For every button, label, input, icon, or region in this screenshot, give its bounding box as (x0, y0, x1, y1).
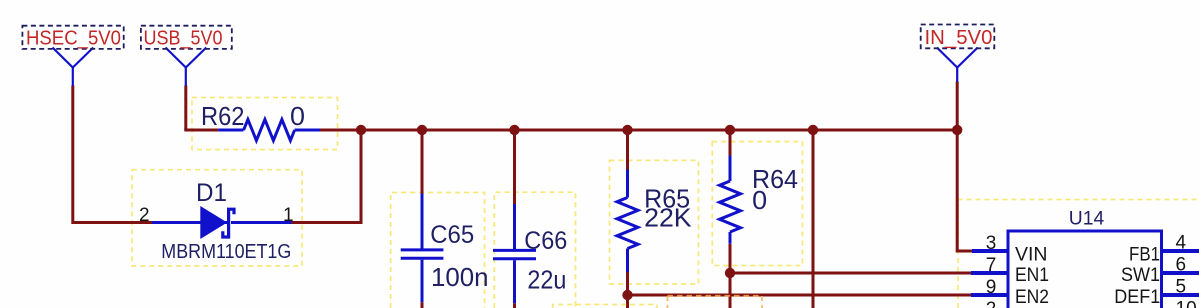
junction dot C65 (417, 125, 427, 135)
svg-text:MBRM110ET1G: MBRM110ET1G (161, 241, 291, 263)
svg-text:5: 5 (1176, 277, 1187, 298)
wire R64 bottom (729, 244, 732, 308)
svg-text:HSEC_5V0: HSEC_5V0 (26, 27, 121, 49)
component box C65 (391, 193, 485, 308)
pin 5 DEF1 stub (1162, 293, 1199, 297)
wire vertical branch (812, 130, 815, 308)
svg-text:C66: C66 (524, 227, 567, 255)
svg-text:USB_5V0: USB_5V0 (144, 27, 223, 49)
svg-text:VIN: VIN (1015, 244, 1048, 265)
capacitor C65 (401, 194, 444, 303)
component box C66 (494, 192, 575, 308)
svg-text:IN_5V0: IN_5V0 (925, 27, 993, 49)
svg-text:R62: R62 (201, 101, 245, 131)
svg-text:22u: 22u (527, 265, 566, 295)
svg-text:SW1: SW1 (1121, 265, 1160, 286)
component box R65 (610, 160, 699, 284)
svg-text:EN2: EN2 (1015, 287, 1049, 308)
component box R62 (192, 98, 338, 150)
resistor R62 (218, 120, 320, 141)
power port USB_5V0 (166, 48, 207, 87)
power port IN_5V0 (937, 48, 978, 83)
svg-text:3: 3 (986, 233, 997, 254)
capacitor C66 (493, 204, 536, 303)
wire R65 top (626, 130, 629, 170)
svg-text:0: 0 (290, 101, 305, 131)
svg-text:D1: D1 (196, 179, 227, 207)
wire main horizontal net (320, 129, 957, 132)
wire EN1 net (730, 272, 971, 275)
wire C66 top (513, 130, 516, 204)
junction dot branch (808, 125, 818, 135)
component box fragment verticals (668, 296, 763, 308)
svg-text:7: 7 (986, 255, 997, 276)
pin 3 VIN stub (972, 249, 1008, 253)
svg-text:1: 1 (283, 205, 294, 226)
pin 7 EN1 stub (971, 271, 1008, 275)
pin 4 FB1 stub (1162, 249, 1199, 253)
component box U14 (958, 200, 1199, 308)
IC U14 body (1008, 231, 1162, 308)
pin 9 EN2 stub (971, 293, 1008, 297)
net label box IN_5V0 (921, 25, 995, 49)
component box fragment bottom-center (553, 305, 657, 308)
wire C66 bottom (513, 303, 516, 308)
wire diode output to main net (292, 130, 362, 223)
component box D1 (132, 170, 302, 266)
component box fragment orange top edge (668, 295, 763, 297)
wire USB_5V0 vertical (184, 86, 187, 131)
junction dot R64 bottom (725, 268, 735, 278)
svg-text:4: 4 (1176, 233, 1187, 254)
svg-text:22K: 22K (644, 203, 692, 233)
svg-text:9: 9 (986, 277, 997, 298)
diode D1 (152, 206, 292, 239)
wire C65 top (421, 130, 424, 194)
svg-text:U14: U14 (1069, 208, 1105, 229)
svg-text:0: 0 (752, 185, 767, 215)
svg-text:2: 2 (139, 205, 150, 226)
junction dot IN_5V0 (952, 125, 962, 135)
svg-text:2: 2 (986, 299, 997, 308)
svg-text:100n: 100n (431, 262, 489, 292)
resistor R65 (617, 170, 638, 273)
net label box HSEC_5V0 (22, 26, 123, 49)
net label box USB_5V0 (141, 26, 232, 49)
wire R65 bottom (626, 272, 629, 295)
junction dot R64 (725, 125, 735, 135)
wire C65 bottom (421, 302, 424, 308)
junction dot R65 (622, 125, 632, 135)
junction dot C66 (509, 125, 519, 135)
svg-text:6: 6 (1176, 255, 1187, 276)
svg-text:FB1: FB1 (1129, 244, 1160, 265)
svg-text:C65: C65 (430, 221, 474, 249)
power port HSEC_5V0 (53, 48, 94, 87)
svg-text:DEF1: DEF1 (1114, 287, 1160, 308)
wire R64 top (729, 130, 732, 156)
resistor R64 (720, 156, 741, 244)
svg-text:10: 10 (1176, 299, 1197, 308)
pin 6 SW1 stub (1162, 271, 1199, 275)
wire IN_5V0 vertical (957, 82, 972, 252)
junction dot R62/diode (356, 125, 366, 135)
component box R64 (712, 142, 802, 266)
wire HSEC_5V0 vertical (73, 86, 152, 223)
junction dot R65 bottom (622, 290, 632, 300)
wire EN2 net (628, 294, 972, 297)
wire R65 junction down (626, 295, 629, 308)
wire R62 left (184, 129, 218, 132)
svg-text:EN1: EN1 (1015, 265, 1049, 286)
